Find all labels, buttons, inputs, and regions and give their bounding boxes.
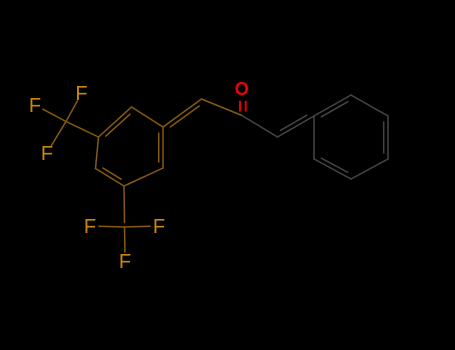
svg-text:O: O [235,79,249,99]
bond C1-ring (CF3 to ring TL vertex) [66,122,99,138]
bond C1-F (top F of top CF3) [66,101,77,122]
left ring inner double TR-BR [158,133,160,162]
right ring inner double TL-TOP [321,102,348,117]
chain bond V1-ring2 (C=C main, gray) [278,116,315,137]
chain double-bond inner line TR-apex [170,106,199,127]
svg-text:F: F [119,251,131,273]
right ring edge BR-BOT [351,159,388,179]
svg-text:F: F [153,216,165,238]
chain bond apex-carbonyl [202,99,243,116]
right ring inner double BOT-BL [321,158,348,172]
left ring edge TR-BR (right edge) [162,127,164,168]
svg-text:F: F [84,216,96,238]
left ring edge TL-TOP [99,107,132,137]
chain bond TR-apex (C=C main) [163,99,202,127]
right ring edge TL-TOP [314,95,351,116]
svg-text:F: F [41,143,53,165]
chain double-bond inner line V1-ring2 [281,115,307,130]
right ring edge BL-TL (left edge) [313,116,315,159]
svg-text:F: F [75,83,87,105]
bond C2-F (right F of lower CF3) [125,225,151,228]
right ring edge TOP-TR [351,95,388,116]
left ring edge BR-BOT [124,168,163,186]
right ring edge TR-BR (right edge) [387,116,389,159]
svg-text:F: F [29,95,41,117]
bond C1-F (left F of top CF3) [43,109,66,121]
C=O double bond line 2 [245,101,247,112]
bond C2-F (left F of lower CF3) [99,225,125,228]
left ring edge TOP-TR [132,107,164,127]
left ring edge BL-TL (left edge) [96,137,99,169]
C=O double bond line 1 [239,101,241,112]
left ring inner double BOT-BL [103,168,121,179]
right ring edge BOT-BL [314,159,351,179]
chain bond carbonyl-V1 (gray) [242,116,278,138]
left ring edge BOT-BL [96,169,125,187]
right ring inner double TR-BR [383,122,385,153]
bond ring BOT to C2 (lower CF3) [123,186,126,223]
bond C2-F (bottom F of lower CF3) [124,227,126,252]
left ring inner double TL-TOP [106,114,130,136]
bond C1-F (lower F of top CF3) [52,122,67,146]
